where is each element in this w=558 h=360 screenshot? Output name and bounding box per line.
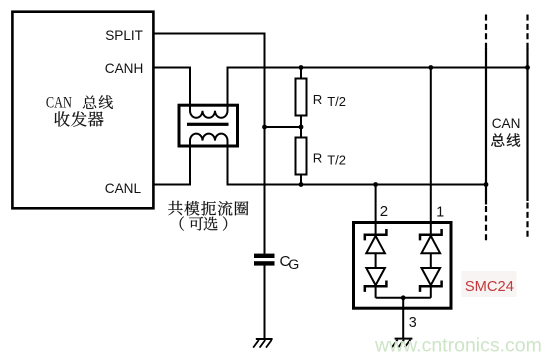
bus label 总线 [491,133,520,147]
ground (CG) [253,339,272,348]
SMC24 internal rail to pin3 [376,297,431,299]
CAN bus transceiver U1 (CAN 总线收发器) [12,12,153,209]
junction: SMC24 pin3 rail [401,295,406,300]
TVS diode pair right (pin1) wires [430,221,432,234]
wire RT/2 bottom to CANL [300,174,302,185]
choke label 共模扼流圈 [168,201,248,216]
junction: CANH / right bus [525,65,530,70]
svg-text:CANL: CANL [105,181,142,196]
wire CANL from U1 into choke [154,141,190,185]
svg-text:R: R [313,92,323,107]
wire SMC24 pin1 to CANH [430,68,432,223]
TVS diode left (pin2) bottom triangle [366,268,385,285]
U1 label text 收发器 [55,111,104,126]
svg-text:1: 1 [436,205,444,221]
common-mode choke L1 box [179,105,238,146]
wire CANL from choke to left bus [228,141,487,185]
ground (SMC24 pin3) [392,339,412,348]
wire CG to ground [264,265,266,339]
wire CANH to RT/2 top [300,68,302,80]
light highlight box behind SMC24 label [462,271,517,297]
junction: CANL / RT2-bottom [299,182,304,187]
junction: CANH / RT2-top [299,65,304,70]
choke bottom winding [190,134,228,147]
choke top winding [190,104,228,118]
U1 label text 总线 [83,95,113,109]
choke label （可选） [180,216,228,230]
svg-text:3: 3 [409,315,417,331]
svg-text:T/2: T/2 [327,94,346,109]
junction: RT2 midpoint node [299,125,304,130]
svg-text:2: 2 [380,203,388,220]
wire SPLIT tap to resistor midpoint [265,126,302,128]
CAN bus left line (dashed-solid-dashed) [485,15,487,242]
svg-text:SMC24: SMC24 [465,279,514,295]
svg-text:CANH: CANH [105,61,144,76]
wire SMC24 pin2 to CANL [375,185,377,223]
TVS diode right (pin1) bottom cathode bar [420,281,442,292]
svg-text:SPLIT: SPLIT [105,28,143,43]
svg-text:www.cntronics.com: www.cntronics.com [374,335,542,357]
wire CANH from U1 into choke [154,68,190,111]
TVS diode left (pin2) top triangle [366,236,385,253]
TVS diode pair left (pin2) wires [375,221,377,234]
resistor RT/2 top [296,79,307,116]
CAN bus right line (dashed-solid-dashed) [526,15,528,241]
TVS diode right (pin1) top triangle [422,236,441,253]
choke core bar [187,123,229,126]
junction: CANL / left bus [484,182,489,187]
wire SPLIT: from U1 right to x=264.5 then down to CG [154,34,265,254]
TVS diode right (pin1) bottom triangle [422,268,441,285]
TVS array SMC24 box [354,223,452,309]
svg-text:CAN: CAN [46,95,72,112]
TVS diode left (pin2) bottom cathode bar [365,281,387,292]
svg-text:T/2: T/2 [327,153,346,168]
svg-text:R: R [313,151,323,166]
junction: SPLIT tap on vertical [262,125,267,130]
TVS diode right (pin1) top cathode bar [420,229,442,240]
wire CANH from choke to right bus [228,68,528,111]
svg-text:CAN: CAN [492,116,521,131]
wire RT/2 top to RT/2 bottom (midpoint node) [300,115,302,138]
junction: CANH / SMC24 pin1 [428,65,433,70]
TVS diode left (pin2) top cathode bar [365,229,387,240]
resistor RT/2 bottom [296,138,307,175]
wire SMC24 pin3 to ground [402,298,404,339]
svg-text:G: G [288,257,299,273]
capacitor CG plates [254,254,275,258]
junction: CANL / SMC24 pin2 [373,182,378,187]
